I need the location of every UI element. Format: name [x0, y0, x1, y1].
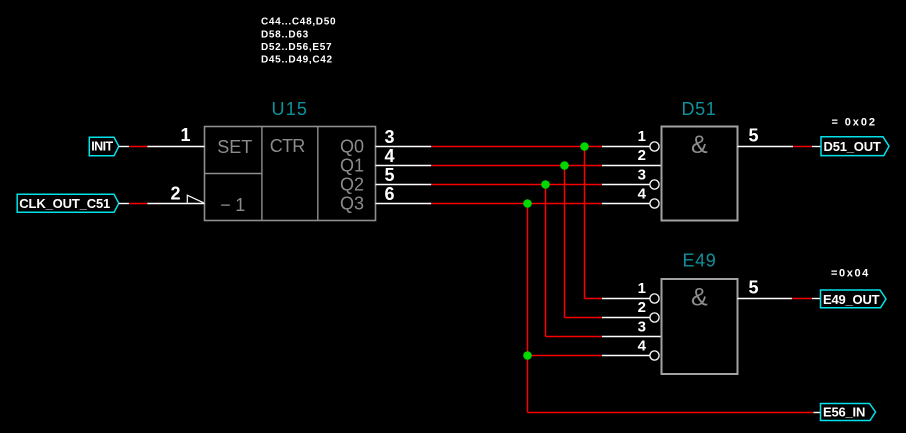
svg-text:2: 2	[638, 147, 646, 164]
svg-text:Q3: Q3	[340, 193, 364, 213]
wire INIT to pin 1	[147, 146, 204, 148]
wire E49 output white stub	[812, 298, 821, 300]
svg-text:−1: −1	[220, 195, 250, 215]
junction node Q3	[523, 199, 532, 208]
gate D51 pin 3 bubble	[650, 180, 659, 189]
wire vertical Q1 branch	[564, 166, 566, 318]
wire Q3 white from pin 6	[376, 203, 432, 205]
U15 clock edge triangle	[187, 195, 203, 203]
svg-text:D45..D49,C42: D45..D49,C42	[261, 55, 333, 66]
gate E49 pin 2 number	[638, 299, 646, 316]
junction node Q2	[541, 180, 550, 189]
svg-text:D52..D56,E57: D52..D56,E57	[261, 42, 332, 53]
gate E49 pin 5 number	[749, 278, 759, 298]
U15 SET label	[217, 137, 252, 157]
gate D51 body	[662, 127, 738, 221]
gate D51 pin 1 bubble	[650, 142, 659, 151]
svg-text:4: 4	[385, 146, 395, 166]
svg-text:CLK_OUT_C51: CLK_OUT_C51	[19, 196, 110, 211]
tag D51_OUT	[821, 137, 889, 156]
wire Q2 red horizontal	[431, 184, 602, 186]
junction node Q1	[560, 161, 569, 170]
wire Q2 white to D51 pin 3	[602, 184, 650, 186]
tag E56_IN	[821, 404, 876, 421]
gate E49 pin 3 number	[638, 319, 646, 336]
wire INIT red segment	[129, 146, 147, 148]
svg-text:5: 5	[749, 278, 759, 298]
svg-text:5: 5	[749, 126, 759, 146]
wire E49 pin 3 red	[546, 336, 603, 338]
svg-text:CTR: CTR	[270, 136, 305, 156]
U15 pin 4 number	[385, 146, 395, 166]
svg-text:2: 2	[170, 184, 180, 204]
svg-text:SET: SET	[217, 137, 252, 157]
svg-text:E56_IN: E56_IN	[823, 405, 865, 420]
svg-text:Q0: Q0	[340, 136, 364, 156]
wire Q0 red horizontal	[431, 146, 602, 148]
wire vertical Q2 branch	[545, 185, 547, 337]
junction node Q3 lower	[523, 351, 532, 360]
wire Q3 white to D51 pin 4	[602, 203, 650, 205]
gate D51 pin 5 number	[749, 126, 759, 146]
wire E49 pin 3 white	[602, 336, 661, 338]
wire E49 pin 2 red	[565, 317, 603, 319]
svg-text:&: &	[691, 284, 708, 312]
svg-text:&: &	[691, 131, 708, 159]
gate E49 pin 2 bubble	[650, 313, 659, 322]
U15 CTR label	[270, 136, 305, 156]
wire CLK stub white	[119, 203, 129, 205]
wire D51 output white	[738, 146, 794, 148]
svg-text:2: 2	[638, 299, 646, 316]
junction node Q0	[580, 142, 589, 151]
wire E49 pin 1 white	[602, 298, 650, 300]
gate D51 pin 4 number	[638, 186, 647, 203]
gate D51 pin 2 number	[638, 147, 646, 164]
value label 0x04	[831, 267, 870, 279]
svg-text:1: 1	[638, 280, 646, 297]
wire E49 pin 4 red	[528, 355, 603, 357]
counter U15 label	[272, 99, 309, 119]
wire vertical Q0 branch	[584, 147, 586, 299]
wire E56 bottom red	[528, 412, 814, 414]
gate D51 pin 4 bubble	[650, 199, 659, 208]
U15 pin 5 number	[385, 165, 395, 185]
svg-text:6: 6	[385, 184, 395, 204]
svg-text:4: 4	[638, 338, 647, 355]
U15 Q2 label	[340, 174, 364, 194]
U15 pin 1 number	[180, 125, 190, 145]
svg-text:4: 4	[638, 186, 647, 203]
svg-text:D51_OUT: D51_OUT	[824, 139, 881, 154]
wire CLK red segment	[129, 203, 147, 205]
wire E49 pin 1 red	[585, 298, 603, 300]
wire E49 output white	[738, 298, 793, 300]
svg-text:Q2: Q2	[340, 174, 364, 194]
svg-text:3: 3	[385, 127, 395, 147]
U15 pin 3 number	[385, 127, 395, 147]
wire E49 pin 4 white	[602, 355, 650, 357]
value label 0x02	[832, 116, 877, 128]
svg-text:Q1: Q1	[340, 155, 364, 175]
wire Q0 white to D51 pin 1	[602, 146, 650, 148]
wire INIT stub white	[119, 146, 129, 148]
svg-text:5: 5	[385, 165, 395, 185]
svg-text:1: 1	[638, 128, 646, 145]
wire Q0 white from pin 3	[376, 146, 432, 148]
gate D51 pin 3 number	[638, 167, 646, 184]
wire Q3 red horizontal	[431, 203, 602, 205]
svg-text:1: 1	[180, 125, 190, 145]
svg-text:3: 3	[638, 319, 646, 336]
U15 Q1 label	[340, 155, 364, 175]
U15 pin 2 number	[170, 184, 180, 204]
wire E49 pin 2 white	[602, 317, 650, 319]
wire E56 white stub	[814, 412, 821, 414]
gate E49 pin 1 number	[638, 280, 646, 297]
svg-text:=0x04: =0x04	[831, 267, 870, 279]
svg-text:D51: D51	[682, 99, 717, 119]
wire CLK to pin 2	[147, 203, 204, 205]
wire Q1 white from pin 4	[376, 165, 432, 167]
net list text block	[261, 17, 336, 66]
U15 -1 label	[220, 195, 250, 215]
gate E49 pin 1 bubble	[650, 294, 659, 303]
svg-text:E49_OUT: E49_OUT	[823, 292, 880, 307]
wire D51 output red	[793, 146, 812, 148]
svg-text:C44...C48,D50: C44...C48,D50	[261, 17, 336, 28]
wire Q2 white from pin 5	[376, 184, 432, 186]
gate E49 pin 4 number	[638, 338, 647, 355]
tag CLK_OUT_C51	[17, 194, 119, 212]
gate E49 body	[662, 279, 738, 374]
gate D51 label	[682, 99, 717, 119]
tag E49_OUT	[821, 290, 887, 308]
svg-text:D58..D63: D58..D63	[261, 29, 309, 40]
U15 Q3 label	[340, 193, 364, 213]
counter U15 body	[205, 127, 376, 221]
wire D51 output white stub	[812, 146, 821, 148]
gate E49 pin 4 bubble	[650, 351, 659, 360]
svg-text:E49: E49	[683, 250, 717, 270]
gate D51 pin 1 number	[638, 128, 646, 145]
gate E49 label	[683, 250, 717, 270]
svg-text:U15: U15	[272, 99, 309, 119]
U15 pin 6 number	[385, 184, 395, 204]
wire Q1 white to D51 pin 2	[602, 165, 661, 167]
svg-text:INIT: INIT	[91, 140, 113, 154]
wire vertical Q3 branch	[527, 204, 529, 413]
wire E49 output red	[792, 298, 812, 300]
wire Q1 red horizontal	[431, 165, 602, 167]
svg-text:= 0x02: = 0x02	[832, 116, 877, 128]
tag INIT	[89, 137, 119, 156]
svg-text:3: 3	[638, 167, 646, 184]
U15 Q0 label	[340, 136, 364, 156]
